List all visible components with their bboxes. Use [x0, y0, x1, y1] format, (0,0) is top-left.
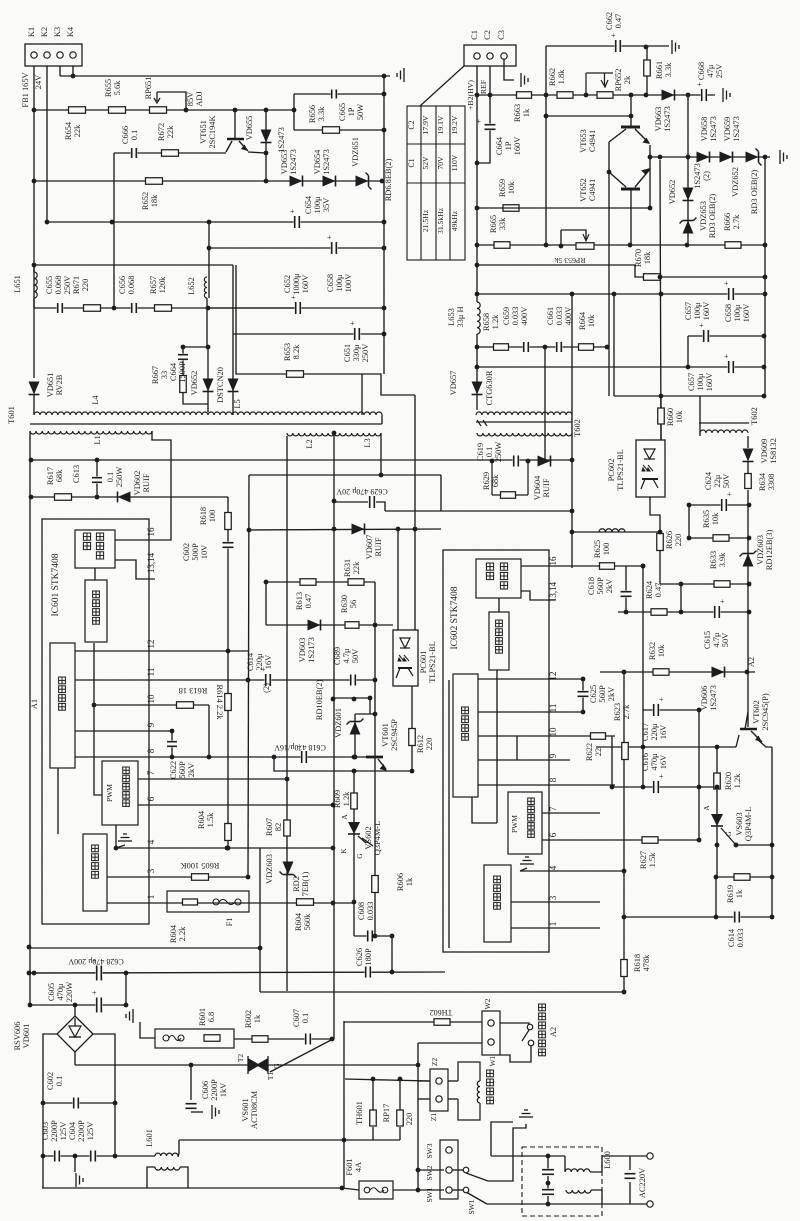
- wire x572 rail: [571, 294, 573, 568]
- block pianzhi-dianlu IC601: [50, 643, 75, 768]
- text xiaoci-coil: [487, 1070, 494, 1104]
- wire x624 mid: [623, 672, 625, 917]
- wire K3 drop: [59, 66, 61, 76]
- wire IC601 pin4: [115, 825, 117, 848]
- capacitor C652: [291, 293, 302, 315]
- wire AC hot row: [75, 1064, 420, 1066]
- label R662 1.8k: [548, 68, 566, 86]
- wire y582 row: [266, 581, 375, 583]
- capacitor C629: [369, 495, 376, 509]
- wire SW1 arm link: [452, 1189, 463, 1191]
- label AC220V: [638, 1168, 647, 1198]
- switch SW2 contact: [463, 1167, 469, 1173]
- label R625 100: [593, 540, 611, 558]
- junction 92: [685, 243, 690, 248]
- wire y1079 row: [345, 1079, 430, 1081]
- wire x688 jog: [687, 336, 689, 367]
- diode VD606: [712, 667, 725, 678]
- diode VD658: [697, 152, 710, 163]
- label R618 100: [199, 507, 217, 525]
- triac VS601: [248, 1056, 268, 1074]
- transformer T602L secondary: [477, 433, 572, 436]
- junction 161: [475, 161, 480, 166]
- junction 141: [715, 843, 720, 848]
- resistor R602: [252, 1036, 268, 1043]
- resistor R657: [155, 305, 172, 312]
- junction 71: [340, 1186, 345, 1191]
- wire y347 row right: [477, 346, 607, 348]
- junction 115: [475, 345, 480, 350]
- wire snubber row y308: [34, 307, 298, 309]
- capacitor C628: [92, 957, 103, 982]
- label T601: [7, 406, 16, 424]
- resistor R659: [503, 205, 519, 212]
- pin W1: [488, 1039, 494, 1045]
- wire T602R chain: [747, 462, 749, 474]
- wire x546 drop: [545, 46, 547, 245]
- block pianzhi-dianlu IC602: [453, 674, 478, 797]
- junction 17: [207, 246, 212, 251]
- zener VDZ651: [356, 173, 372, 190]
- resistor R630: [345, 622, 359, 629]
- resistor R661: [644, 60, 651, 76]
- wire C629 bend: [376, 502, 385, 511]
- pin 4 IC602: [548, 865, 558, 870]
- junction 32: [114, 846, 119, 851]
- capacitor C626: [365, 966, 372, 979]
- wire x126 link: [125, 973, 127, 1005]
- label F601 4A: [345, 1158, 363, 1175]
- thyristor VS603: [711, 814, 736, 845]
- label L4: [91, 395, 100, 405]
- junction 1: [32, 108, 37, 113]
- wire L601 bot right: [180, 1167, 188, 1188]
- wire x545 drop: [544, 347, 546, 461]
- pin K1: [31, 52, 37, 58]
- junction 101: [382, 74, 387, 79]
- wire y612 row: [618, 611, 749, 613]
- junction 12: [32, 263, 37, 268]
- capacitor C659: [523, 341, 530, 353]
- wire x699 drop: [698, 710, 700, 840]
- label C666 0.1: [121, 126, 139, 144]
- label A2 right: [747, 657, 756, 667]
- label K4: [66, 26, 75, 37]
- junction 166: [170, 729, 175, 734]
- junction 33: [92, 703, 97, 708]
- label R665 33k: [489, 215, 507, 233]
- capacitor C657a: [724, 279, 735, 301]
- junction 39: [332, 499, 337, 504]
- junction 110: [475, 206, 480, 211]
- table 49kHz: [450, 210, 459, 231]
- junction 56: [390, 934, 395, 939]
- wire L601 top right: [178, 1140, 179, 1157]
- filter L600 dashed box: [522, 1147, 602, 1216]
- junction 35: [207, 755, 212, 760]
- diode DSTCN20: [228, 379, 239, 392]
- junction 84: [644, 45, 649, 50]
- pin SW1: [446, 1187, 452, 1193]
- label R620 1.2k: [724, 772, 742, 790]
- label VD651 RV2B: [46, 373, 64, 398]
- label T602 right: [750, 407, 759, 425]
- label C602 500P 10V: [182, 543, 209, 561]
- wire internal pin9 tap: [516, 736, 518, 760]
- label 24V: [34, 75, 43, 89]
- wire gnd mid stub: [74, 1156, 76, 1172]
- label C662 0.47: [605, 12, 623, 30]
- pin 7 IC602: [548, 806, 558, 811]
- wire IC602 pin8: [478, 784, 615, 786]
- wire R653 row: [236, 265, 415, 395]
- label R633 3.9k: [709, 551, 727, 569]
- resistor R614: [225, 694, 232, 711]
- wire C2 jog: [477, 66, 490, 163]
- wire y475 row: [249, 474, 441, 476]
- label C659 0.033 400V: [502, 307, 529, 326]
- wire y116 row: [546, 115, 631, 117]
- resistor R604b: [225, 824, 232, 841]
- label G VS603: [724, 831, 733, 837]
- label RP17: [382, 1104, 391, 1123]
- label VS601 ACT08CM: [241, 1090, 259, 1129]
- text qidong IC601: [92, 845, 99, 878]
- junction 111: [475, 243, 480, 248]
- pin 13,14 IC602: [548, 581, 558, 602]
- wire loop R656 top: [294, 93, 384, 95]
- wire diode row y181: [34, 180, 384, 182]
- wire y505 row: [689, 504, 748, 506]
- capacitor C651: [350, 319, 361, 341]
- wire top rail: [60, 75, 390, 77]
- block gonglv-kaiguan IC601: [75, 530, 115, 568]
- junction 156: [687, 536, 692, 541]
- label 85V ADJ: [186, 91, 204, 107]
- wire C605 row: [30, 1004, 126, 1006]
- wire emitter row y771: [274, 757, 412, 771]
- wire y208 row: [477, 207, 630, 209]
- wire IC602 internal a: [498, 598, 500, 612]
- label C626 180P: [355, 948, 373, 966]
- capacitor C665: [331, 89, 338, 100]
- junction 95: [629, 114, 634, 119]
- junction 130: [641, 785, 646, 790]
- junction 118: [658, 275, 663, 280]
- potentiometer RP652: [597, 92, 613, 99]
- wire y1043 row: [418, 1042, 482, 1044]
- label +B2(HV): [466, 80, 475, 110]
- label R630 56: [340, 595, 358, 613]
- resistor R672: [162, 150, 179, 157]
- junction 10: [382, 92, 387, 97]
- capacitor C618a: [297, 742, 308, 764]
- junction 128: [610, 785, 615, 790]
- wire C668 tail: [688, 94, 715, 96]
- wire x689 stub: [688, 505, 690, 538]
- junction 76: [371, 1077, 376, 1082]
- wire IC602 pin4: [520, 870, 624, 872]
- text xiaoci-socket: [539, 1004, 546, 1056]
- wire Z2 lead: [418, 1080, 430, 1082]
- label C605 470u 220W: [47, 982, 74, 1003]
- label C652 1000u 160V: [283, 273, 310, 295]
- wire C652 row: [209, 307, 384, 309]
- text jili IC602: [496, 620, 503, 653]
- junction 59: [27, 945, 32, 950]
- wire VD655 branch: [265, 110, 267, 181]
- label VT651 2SC194K: [199, 115, 217, 148]
- wire y992 row: [260, 991, 624, 993]
- label VD609 1S8132: [760, 438, 778, 464]
- wire C618b branch: [625, 566, 627, 612]
- wire IC601 pin12: [75, 650, 248, 652]
- pin K3: [57, 52, 63, 58]
- ground top left of table: [397, 68, 404, 82]
- block qidong-dianlu IC602: [484, 865, 511, 942]
- wire y265 jog row: [477, 265, 765, 277]
- resistor TH601: [370, 1110, 377, 1126]
- wire VT602 emitter: [757, 739, 772, 747]
- pin C3: [501, 53, 507, 59]
- resistor R622: [591, 733, 606, 740]
- junction 120: [526, 459, 531, 464]
- resistor RP17: [397, 1110, 404, 1126]
- junction 153: [747, 582, 752, 587]
- capacitor C613: [91, 477, 103, 484]
- junction 22: [181, 345, 186, 350]
- wire C658 row y248: [209, 247, 384, 249]
- label R624 0.47: [645, 580, 663, 599]
- junction 2: [184, 108, 189, 113]
- label C625 560P 2kV: [589, 685, 616, 703]
- junction 44: [373, 712, 378, 717]
- pin Z2: [436, 1078, 442, 1084]
- text pianzhi IC602: [462, 707, 469, 740]
- wire L1 left: [29, 431, 31, 1005]
- wire R612 chain: [411, 685, 413, 771]
- inductor L651: [34, 272, 37, 298]
- wire cap bot: [547, 1196, 549, 1204]
- resistor R634: [745, 474, 752, 489]
- junction 11: [382, 128, 387, 133]
- wire y532 coil row: [572, 531, 660, 533]
- capacitor C607: [305, 1033, 312, 1046]
- label VD663 1S2473: [654, 106, 672, 132]
- wire x477 feed upper: [476, 66, 478, 302]
- wire DSTCN20 drop: [232, 265, 234, 415]
- label R601 6.8: [198, 1008, 216, 1026]
- label VD606 1S2473: [700, 685, 718, 711]
- wire bottom rail: [42, 1187, 342, 1189]
- junction 67: [113, 1154, 118, 1159]
- wire x688 drop: [687, 95, 689, 157]
- pin 3 IC601: [146, 868, 156, 873]
- wire IC601 pin16: [115, 539, 149, 541]
- resistor R619: [734, 874, 750, 881]
- junction 8: [233, 108, 238, 113]
- label C613: [72, 465, 81, 483]
- label C664 1P 160V: [495, 136, 522, 155]
- wire x643 vertical: [642, 566, 644, 787]
- junction 87: [648, 155, 653, 160]
- wire RP653 wiper: [561, 230, 586, 239]
- junction 60: [27, 971, 32, 976]
- junction 168: [285, 777, 290, 782]
- junction 109: [570, 292, 575, 297]
- diode VD651: [29, 382, 40, 395]
- label VD658 1S2473: [700, 116, 718, 142]
- ground IC601 pin4: [118, 834, 132, 841]
- junction 86: [686, 93, 691, 98]
- junction 104: [762, 334, 767, 339]
- potentiometer RP651: [150, 107, 167, 114]
- resistor R655: [109, 107, 126, 114]
- transistor VT602: [740, 712, 762, 742]
- label PC601 TLPS21-BL: [419, 641, 437, 682]
- junction 46: [353, 755, 358, 760]
- transistor VT601: [366, 757, 387, 771]
- wire L600 bottom: [548, 1203, 602, 1205]
- connector Z1 Z2 box: [430, 1069, 448, 1111]
- junction 57: [390, 970, 395, 975]
- wire VD607 row: [249, 529, 441, 530]
- wire VDZ601 top jog: [355, 698, 375, 714]
- wire R618b chain: [623, 917, 625, 992]
- wire x375 rail: [374, 582, 376, 936]
- wire x609 drop: [608, 277, 610, 396]
- wire gnd stub IC601: [116, 845, 125, 848]
- label A2 socket: [549, 1027, 558, 1037]
- resistor R656: [323, 127, 340, 134]
- resistor R653: [287, 371, 304, 378]
- wire Z1 lead: [418, 1098, 430, 1100]
- junction 20: [206, 306, 211, 311]
- junction 152: [747, 536, 752, 541]
- capacitor C617: [653, 695, 665, 717]
- wire x333 to gate: [270, 1039, 333, 1072]
- wiper arrowhead RP653: [583, 234, 589, 241]
- wire base row C666: [114, 152, 226, 154]
- pin 8 IC602: [548, 777, 558, 782]
- label RD10EB(2): [315, 680, 324, 721]
- wire x415 rail: [414, 395, 416, 630]
- label R664 10k: [578, 311, 596, 330]
- junction 89: [686, 155, 691, 160]
- junction 23: [206, 345, 211, 350]
- connector C1-C3 box: [464, 45, 516, 66]
- junction 41: [413, 527, 418, 532]
- label 1S2473(2): [693, 163, 711, 189]
- wire L652 drop: [206, 298, 208, 347]
- wire y787 row: [612, 786, 717, 788]
- wire C629 stub: [334, 501, 368, 503]
- fuse F1 element: [213, 899, 241, 905]
- optocoupler PC601: [393, 630, 418, 686]
- IC IC602 STK7408 outline: [443, 550, 549, 952]
- junction 31: [226, 649, 231, 654]
- wire IC601 internal b: [94, 643, 102, 795]
- wire y245 row: [477, 244, 765, 246]
- junction 97: [544, 243, 549, 248]
- wire cap1 leg: [547, 1156, 549, 1169]
- wiper arrow RP652: [586, 73, 608, 95]
- wire y1021 row: [344, 1021, 482, 1023]
- resistor R613c: [300, 579, 316, 586]
- pin 6 IC601: [146, 796, 156, 801]
- resistor R631: [348, 579, 364, 586]
- capacitor C619: [513, 455, 520, 468]
- label 220 rp17: [405, 1113, 414, 1126]
- junction 78: [546, 1154, 551, 1159]
- wire L651 bottom: [33, 298, 35, 308]
- capacitor C655: [57, 302, 64, 314]
- junction 169: [332, 431, 337, 436]
- pin 1 IC602: [548, 922, 558, 927]
- wire degauss coil frame: [458, 1062, 480, 1120]
- resistor R664: [579, 344, 594, 351]
- wire RP652 wiper: [586, 72, 613, 74]
- junction 5: [264, 151, 269, 156]
- junction 72: [416, 1188, 421, 1193]
- wire bridge left: [43, 1034, 58, 1188]
- wire R617 row: [30, 496, 228, 498]
- wire x334 long rail: [333, 433, 335, 1039]
- capacitor C608: [367, 930, 374, 943]
- pin SW2: [446, 1167, 452, 1173]
- label R663 1k: [513, 104, 531, 122]
- junction 69: [189, 1063, 194, 1068]
- wire IC601 pin3: [107, 876, 248, 878]
- wire x748 top: [747, 672, 749, 710]
- junction 70: [330, 1037, 335, 1042]
- junction 75: [342, 1138, 347, 1143]
- resistor R604c: [297, 899, 314, 906]
- wire K2 drop: [46, 66, 48, 222]
- label C618 560P 2kV: [587, 577, 614, 595]
- junction 121: [490, 459, 495, 464]
- wire C664 leg: [183, 347, 208, 404]
- label C614 220u 16V: [246, 652, 273, 671]
- wire IC601 pin7: [138, 778, 287, 780]
- wire bridge top: [74, 1005, 76, 1017]
- junction 79: [546, 1181, 551, 1186]
- wire x287 rail: [286, 436, 288, 991]
- capacitor CX3: [624, 1173, 637, 1180]
- label SW1 a: [425, 1187, 434, 1202]
- table 52V: [421, 156, 430, 170]
- wire T601 core: [30, 423, 382, 425]
- label SW2: [425, 1165, 434, 1180]
- wire y845 row: [736, 844, 772, 846]
- choke L600 top: [565, 1169, 590, 1172]
- wire T602R left leg: [699, 396, 701, 436]
- wire IC602 internal b: [496, 670, 498, 823]
- text kaiguan IC601b: [96, 533, 103, 559]
- resistor R658: [494, 344, 509, 351]
- wire y877 row: [716, 876, 772, 878]
- text pianzhi IC601: [59, 677, 66, 710]
- junction 4: [264, 108, 269, 113]
- wire x609 collector rail: [608, 142, 610, 277]
- junction 48: [352, 769, 357, 774]
- pin 6 IC602: [548, 832, 558, 837]
- label K VS602: [339, 848, 348, 854]
- junction 24: [382, 332, 387, 337]
- label (2) mark: [262, 683, 271, 693]
- label VD659 1S2473: [723, 116, 741, 142]
- wire y265 row: [34, 264, 233, 266]
